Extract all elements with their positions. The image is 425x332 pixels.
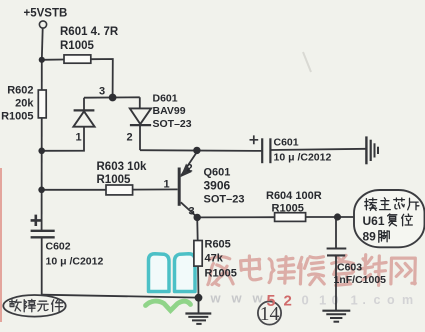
svg-text:R1005: R1005 <box>205 268 237 280</box>
svg-text:C603: C603 <box>337 262 362 274</box>
svg-text:o: o <box>387 293 395 307</box>
watermark red 52 <box>267 293 292 311</box>
svg-text:R1005: R1005 <box>1 111 33 123</box>
svg-text:BAV99: BAV99 <box>153 105 186 117</box>
wire C601 to ground <box>271 149 367 150</box>
svg-text:U61: U61 <box>363 214 385 228</box>
wire left diode branch <box>42 98 84 151</box>
svg-text:3: 3 <box>99 86 105 98</box>
junction node 3 of D601 <box>109 94 117 102</box>
faint scratch top right <box>303 52 311 72</box>
svg-text:0: 0 <box>302 293 309 308</box>
svg-text:SOT–23: SOT–23 <box>204 194 245 206</box>
svg-text:.: . <box>363 293 366 307</box>
svg-text:D601: D601 <box>153 93 178 105</box>
capacitor C602 <box>31 215 55 238</box>
wire C603 branch <box>335 217 337 310</box>
wire left rail below C602 <box>41 237 43 294</box>
watermark chinese text <box>208 255 415 286</box>
svg-text:R605: R605 <box>205 239 231 251</box>
callout text line1 接主芯片 <box>365 198 419 211</box>
svg-text:10 μ /C2012: 10 μ /C2012 <box>274 152 332 164</box>
wire left rail <box>41 60 43 231</box>
svg-text:R604 100R: R604 100R <box>266 190 322 202</box>
svg-text:1: 1 <box>164 179 170 191</box>
ellipse fault component <box>3 295 65 317</box>
callout text line2 U61复位 <box>363 214 413 228</box>
ellipse callout to main chip <box>354 190 425 247</box>
junction node emitter rail <box>193 147 200 154</box>
power terminal +5VSTB <box>39 21 46 28</box>
left edge red scan artifact <box>0 168 2 322</box>
resistor R605 <box>194 241 202 267</box>
ground bottom middle <box>185 314 211 324</box>
svg-text:R601 4. 7R: R601 4. 7R <box>60 26 119 38</box>
wire right diode branch <box>139 97 141 150</box>
junction node C603 tap <box>334 213 341 220</box>
svg-text:1: 1 <box>351 293 358 308</box>
svg-text:3906: 3906 <box>204 179 231 193</box>
junction node left diode <box>38 148 45 155</box>
diode D601 pin1 (left, cathode up) <box>73 110 94 126</box>
svg-text:10 μ /C2012: 10 μ /C2012 <box>46 256 104 268</box>
watermark book icon <box>149 254 196 292</box>
junction node R603 tap <box>38 187 45 194</box>
svg-text:89: 89 <box>363 230 377 244</box>
svg-text:5: 5 <box>267 293 276 310</box>
diode D601 pin2 (right, cathode down) <box>130 108 151 125</box>
junction node collector <box>194 214 201 221</box>
svg-text:3: 3 <box>189 206 195 218</box>
svg-text:1: 1 <box>76 132 82 144</box>
ground bottom right <box>322 311 350 322</box>
svg-text:Q601: Q601 <box>204 167 231 179</box>
wire collector to R605 <box>196 217 199 240</box>
junction node R601 tap <box>39 57 45 63</box>
svg-text:m: m <box>402 293 413 307</box>
watermark green wave <box>146 301 191 310</box>
wire terminal to left rail <box>41 28 44 60</box>
svg-text:+5VSTB: +5VSTB <box>24 8 68 20</box>
svg-text:R603 10k: R603 10k <box>97 161 147 173</box>
svg-text:1nF/C1005: 1nF/C1005 <box>334 274 387 286</box>
svg-text:w: w <box>231 291 243 306</box>
wire R601 row <box>42 59 113 97</box>
svg-text:47k: 47k <box>205 253 224 265</box>
wire R605 to bottom node <box>197 266 200 313</box>
svg-text:20k: 20k <box>15 98 34 110</box>
wire R603 row <box>42 188 178 190</box>
ground right (rotated) <box>366 136 378 164</box>
resistor R602 <box>38 90 46 118</box>
wire bottom rail <box>42 295 199 298</box>
svg-text:c: c <box>374 293 381 307</box>
svg-text:R602: R602 <box>7 85 33 97</box>
transistor Q601 <box>179 152 197 217</box>
svg-text:SOT–23: SOT–23 <box>153 118 192 130</box>
svg-text:C602: C602 <box>46 241 71 253</box>
resistor R604 <box>275 213 306 222</box>
svg-text:w: w <box>210 291 222 306</box>
svg-text:2: 2 <box>127 132 133 144</box>
svg-text:R1005: R1005 <box>60 40 94 52</box>
svg-text:R1005: R1005 <box>272 203 304 215</box>
resistor R601 <box>64 55 91 63</box>
svg-text:R1005: R1005 <box>97 174 131 186</box>
capacitor C603 <box>327 249 347 256</box>
svg-text:2: 2 <box>284 293 292 310</box>
svg-text:2: 2 <box>187 163 193 175</box>
wire emitter rail to C601 <box>140 149 262 152</box>
watermark url row <box>210 291 414 308</box>
svg-text:1: 1 <box>319 293 326 308</box>
resistor R603 <box>106 185 133 195</box>
fault ellipse text 故障元件 <box>10 299 63 311</box>
callout text line3 89脚 <box>363 230 390 244</box>
capacitor C601 <box>250 135 271 163</box>
svg-text:C601: C601 <box>274 137 299 149</box>
junction node bottom rail <box>195 294 203 302</box>
page number 14 circled <box>258 301 281 325</box>
wire node 3 horizontal <box>84 96 140 98</box>
wire collector node rail <box>197 216 354 218</box>
